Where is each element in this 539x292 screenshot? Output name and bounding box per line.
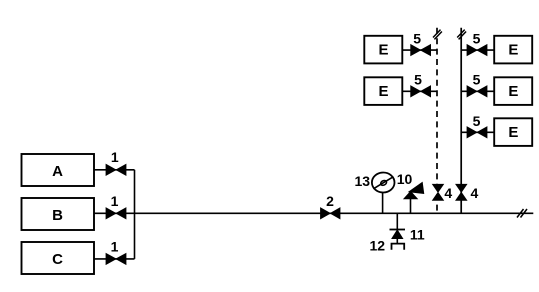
svg-text:E: E <box>508 83 518 100</box>
relief valve 10 <box>397 171 424 199</box>
valve 5 (L1) <box>411 30 431 55</box>
svg-text:5: 5 <box>473 113 481 129</box>
consumer E box R3 <box>494 118 532 146</box>
consumer E box L2 <box>364 77 402 105</box>
tank A <box>22 154 95 186</box>
valve 1 (line B) <box>106 193 126 219</box>
wire A to manifold <box>94 169 135 171</box>
valve 1 (line C) <box>106 239 126 265</box>
svg-text:10: 10 <box>397 171 413 187</box>
gauge 13 <box>355 173 395 193</box>
svg-text:A: A <box>52 163 63 180</box>
wire B to manifold <box>94 212 135 214</box>
svg-text:B: B <box>52 207 63 224</box>
valve 4 (solid riser) <box>456 184 479 201</box>
wire solid riser to E R1 <box>461 49 494 51</box>
valve 5 (R2) <box>467 72 487 97</box>
consumer E box L1 <box>364 36 402 64</box>
svg-text:1: 1 <box>111 193 119 209</box>
drain stub wire down <box>396 213 398 230</box>
solid riser break mark <box>457 30 466 40</box>
svg-text:12: 12 <box>370 237 386 253</box>
svg-text:4: 4 <box>444 185 452 201</box>
wire E L1 to dashed riser <box>402 49 437 51</box>
dashed riser break mark <box>433 30 442 40</box>
valve 5 (L2) <box>411 72 431 97</box>
check valve 11 <box>390 227 425 243</box>
valve 1 (line A) <box>106 149 126 176</box>
wire C to manifold <box>94 258 135 260</box>
valve 2 <box>321 193 341 219</box>
consumer E box R2 <box>494 77 532 105</box>
gauge U13 stub wire <box>382 192 384 213</box>
valve 5 (R3) <box>467 113 487 138</box>
svg-text:5: 5 <box>413 30 421 46</box>
svg-text:5: 5 <box>414 72 422 88</box>
svg-text:E: E <box>508 41 518 58</box>
solid riser wire <box>460 28 462 214</box>
svg-text:2: 2 <box>326 193 334 209</box>
valve 4 (dashed riser) <box>433 184 453 201</box>
manifold vertical wire <box>134 170 136 259</box>
tank B <box>22 198 95 230</box>
svg-text:C: C <box>52 251 63 268</box>
svg-text:5: 5 <box>473 30 481 46</box>
svg-text:11: 11 <box>410 227 425 243</box>
wire valve 11 to funnel <box>396 239 398 244</box>
consumer E box R1 <box>494 36 532 64</box>
main pipe wire <box>135 212 534 214</box>
dashed riser wire <box>436 28 438 214</box>
relief valve 10 stub wire <box>410 198 412 214</box>
svg-text:1: 1 <box>111 149 119 165</box>
wire E L2 to dashed riser <box>402 90 437 92</box>
wire solid riser to E R2 <box>461 90 494 92</box>
main pipe end break mark <box>517 209 527 218</box>
svg-text:E: E <box>378 83 388 100</box>
wire solid riser to E R3 <box>461 131 494 133</box>
svg-text:5: 5 <box>473 72 481 88</box>
valve 5 (R1) <box>467 30 487 55</box>
tank C <box>22 242 95 274</box>
svg-text:4: 4 <box>471 185 479 201</box>
svg-text:1: 1 <box>111 239 119 255</box>
svg-text:E: E <box>378 41 388 58</box>
drain funnel 12 <box>370 237 405 253</box>
svg-text:E: E <box>508 124 518 141</box>
svg-text:13: 13 <box>355 173 371 189</box>
